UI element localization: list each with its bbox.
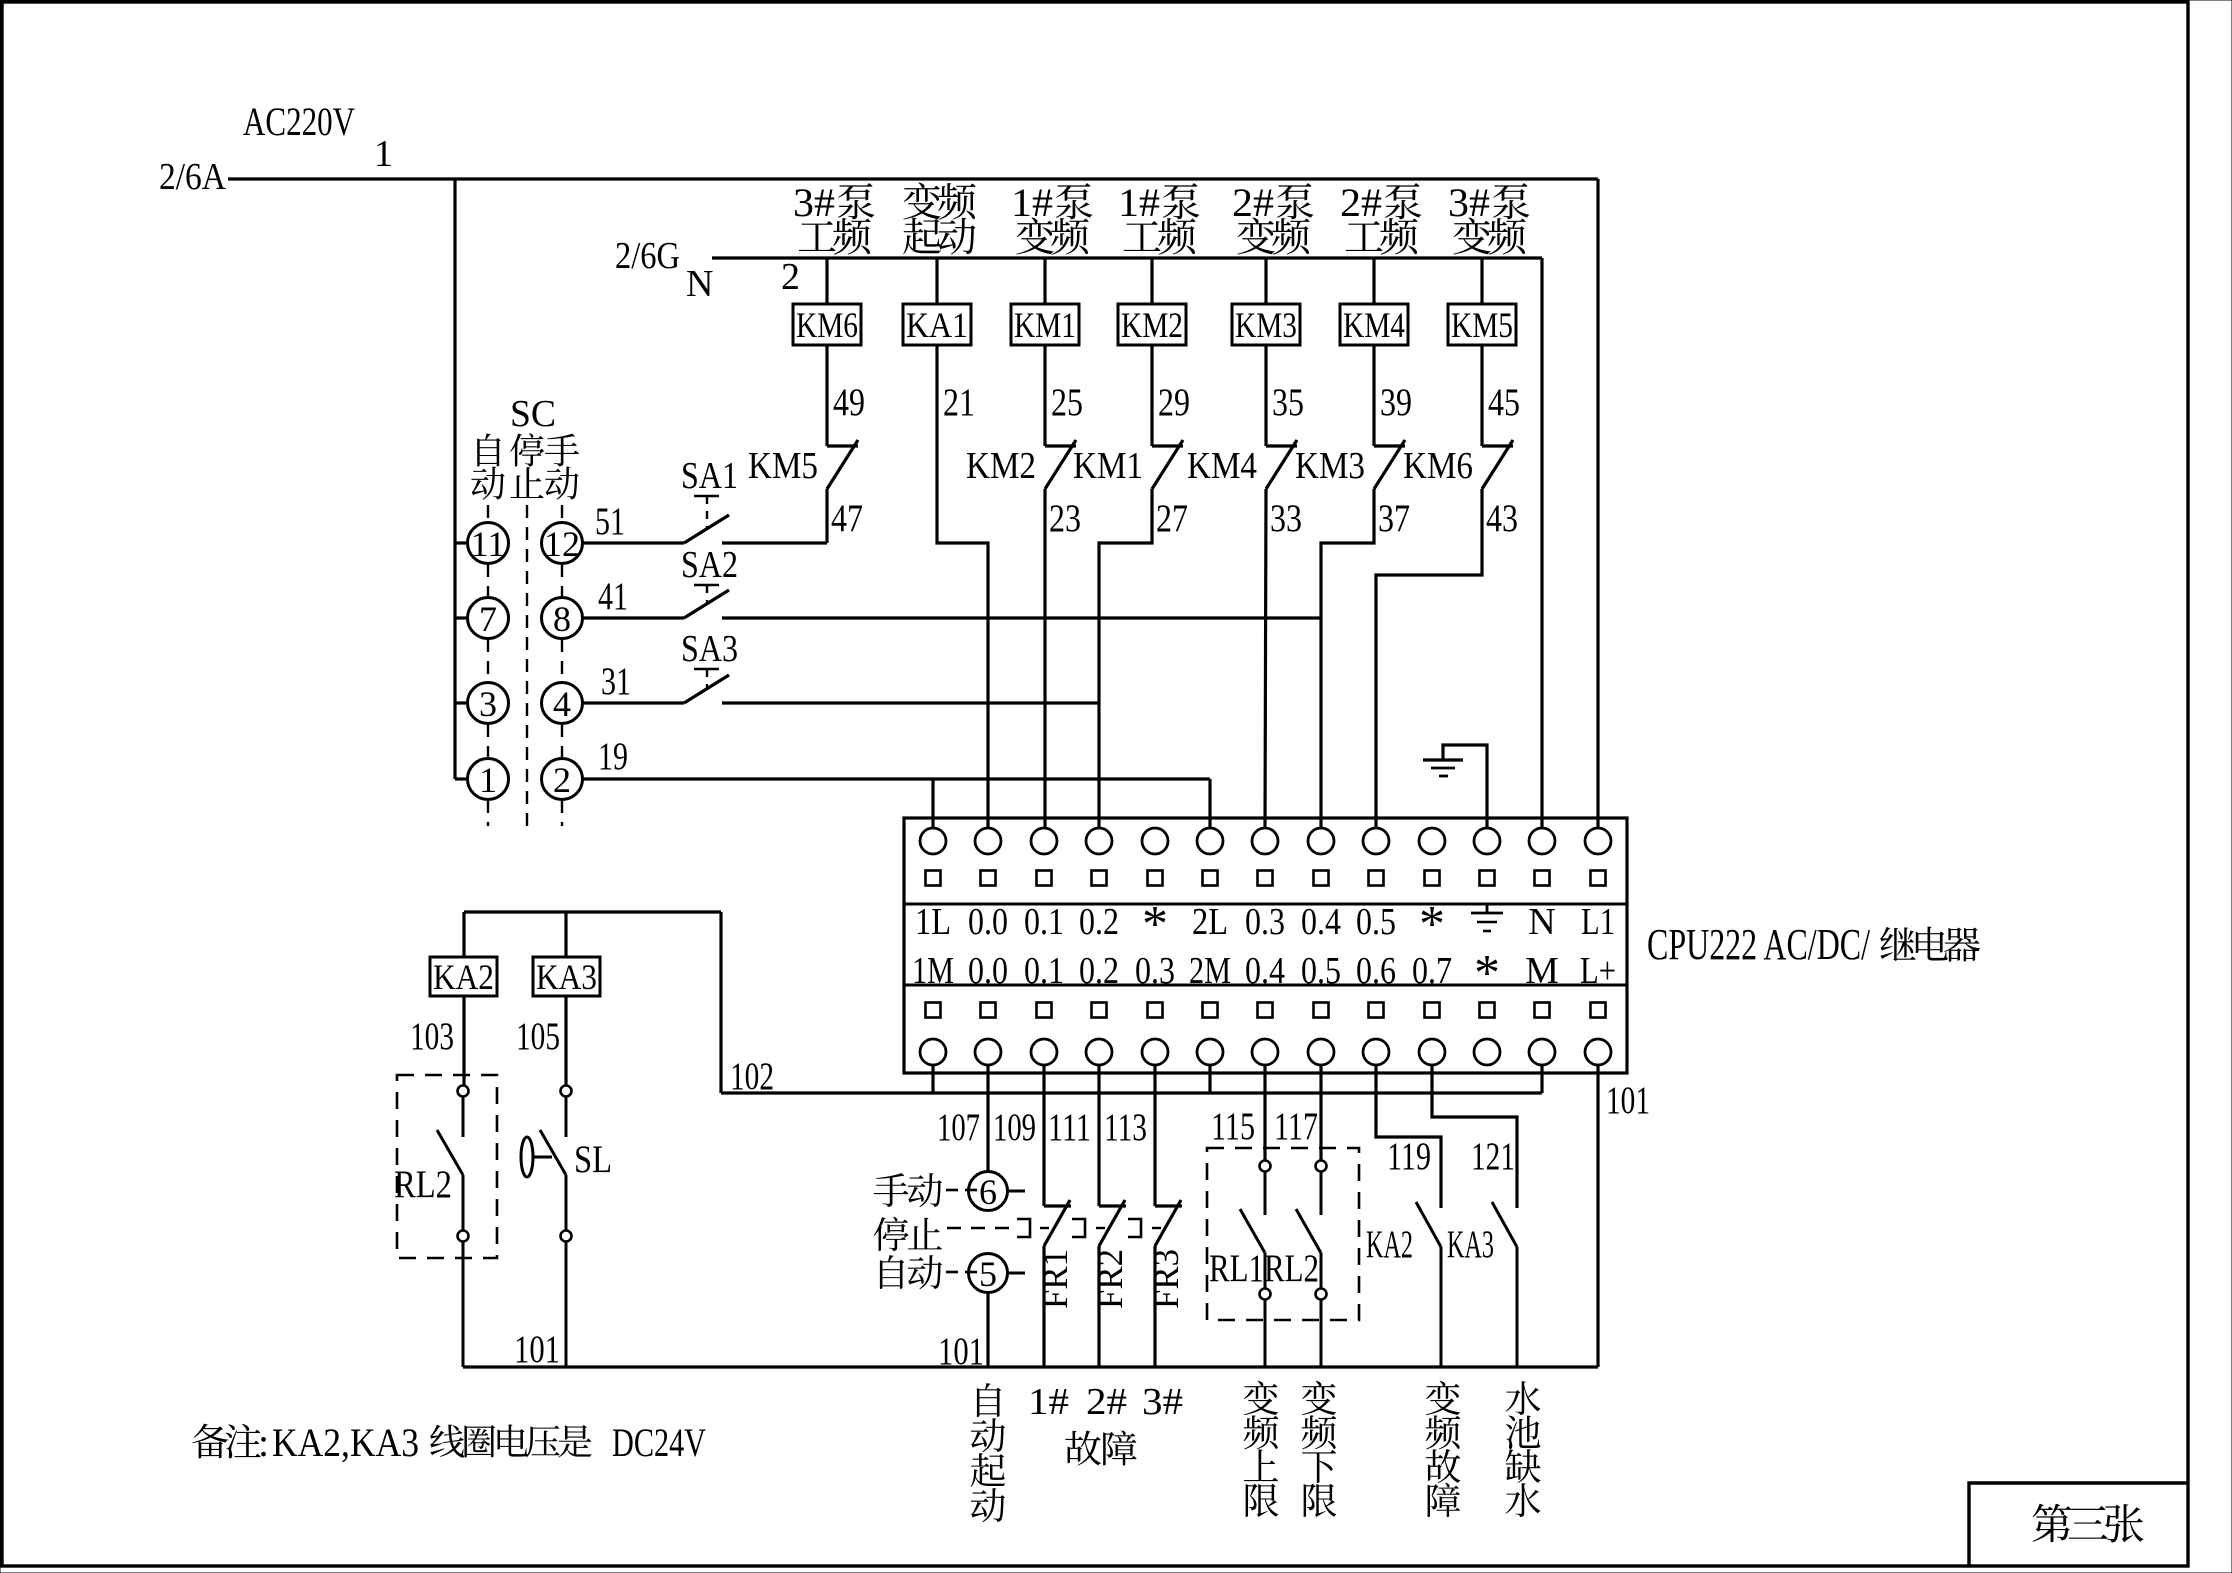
svg-text:SA1: SA1 — [681, 455, 738, 497]
wire 19 from SC to 1L and 2L — [583, 779, 1210, 829]
svg-text:39: 39 — [1380, 381, 1412, 424]
svg-text:KM6: KM6 — [1403, 445, 1473, 487]
coil KM5 — [1448, 258, 1516, 345]
wire L line 1 — [228, 177, 1598, 180]
label 101 right — [1606, 1079, 1650, 1122]
coil KA3 — [533, 912, 600, 1085]
label 自动起动 — [971, 1383, 1006, 1522]
svg-text:109: 109 — [993, 1106, 1036, 1149]
svg-text:KM6: KM6 — [796, 305, 858, 345]
svg-text:0.3: 0.3 — [1135, 950, 1175, 992]
label 31 — [601, 660, 631, 703]
SC column text 停止 — [510, 433, 544, 498]
svg-text:*: * — [1474, 945, 1500, 1002]
label 105 — [516, 1015, 560, 1058]
contact KM3 NC interlock — [1295, 345, 1412, 540]
svg-text:0.1: 0.1 — [1024, 950, 1064, 992]
svg-text:SA3: SA3 — [681, 628, 738, 670]
coil KA1 — [903, 258, 971, 345]
header 1#泵变频 over x=1045 — [1011, 180, 1092, 255]
svg-text:N: N — [686, 263, 713, 305]
svg-text:43: 43 — [1486, 497, 1518, 540]
svg-text:CPU222 AC/DC/: CPU222 AC/DC/ — [1647, 920, 1871, 969]
svg-text:0.1: 0.1 — [1024, 901, 1064, 943]
label 103 — [410, 1015, 454, 1058]
coil KM4 — [1340, 258, 1408, 345]
label 111 — [1048, 1106, 1091, 1149]
contact FR1 NC thermal — [1017, 1066, 1075, 1367]
svg-text:111: 111 — [1048, 1106, 1091, 1149]
contact KM2 NC interlock — [966, 345, 1083, 540]
svg-text:1#: 1# — [1028, 1381, 1069, 1423]
svg-text:107: 107 — [937, 1106, 980, 1149]
wire KM6 contact to output 0.5 — [1376, 489, 1482, 829]
label RL2 — [394, 1163, 452, 1206]
label 变频下限 — [1302, 1381, 1337, 1517]
PLC CPU222 terminal block — [904, 818, 1627, 1073]
svg-text:119: 119 — [1387, 1135, 1431, 1178]
svg-text:2: 2 — [781, 256, 800, 298]
svg-text:KA3: KA3 — [536, 957, 597, 997]
svg-text:27: 27 — [1156, 497, 1188, 540]
svg-text:0.4: 0.4 — [1301, 901, 1341, 943]
label 101 mid — [938, 1330, 984, 1373]
label CPU222 AC/DC/ 继电器 — [1647, 920, 1980, 969]
svg-text:25: 25 — [1051, 381, 1083, 424]
svg-text:FR1: FR1 — [1035, 1249, 1075, 1309]
contact RL2 NO — [437, 1086, 469, 1368]
svg-text:0.0: 0.0 — [968, 901, 1008, 943]
svg-text:33: 33 — [1270, 497, 1302, 540]
svg-text:115: 115 — [1211, 1105, 1255, 1148]
dashed enclosure RL2 — [397, 1075, 497, 1258]
switch SA3 — [583, 628, 1099, 703]
SC contact terminals 7-8 — [455, 598, 583, 640]
switch SA1 — [583, 455, 827, 543]
svg-text:45: 45 — [1488, 381, 1520, 424]
svg-text:RL2: RL2 — [394, 1163, 452, 1206]
header 1#泵工频 over x=1152 — [1118, 180, 1199, 255]
SC column text 手动 — [545, 434, 579, 500]
svg-text:KM4: KM4 — [1343, 305, 1405, 345]
svg-text:2#: 2# — [1086, 1381, 1127, 1423]
svg-text:2/6G: 2/6G — [615, 235, 680, 277]
svg-text:19: 19 — [598, 735, 628, 778]
svg-text:49: 49 — [833, 381, 865, 424]
wire KM1 contact to output 0.2 — [1099, 489, 1152, 829]
svg-text:101: 101 — [1606, 1079, 1650, 1122]
header 变频起动 over x=937 — [903, 182, 975, 254]
contact KA2 NO — [1376, 1066, 1441, 1367]
svg-text:RL1RL2: RL1RL2 — [1209, 1247, 1319, 1290]
SC contact terminals 3-4 — [455, 683, 583, 725]
label 115 — [1211, 1105, 1255, 1148]
svg-text:SL: SL — [574, 1138, 612, 1181]
svg-text:KM3: KM3 — [1235, 305, 1297, 345]
label 113 — [1104, 1106, 1147, 1149]
SC contact terminals 11-12 — [455, 523, 583, 565]
dashed enclosure RL1 RL2 — [1207, 1148, 1359, 1320]
wire KA1 coil to output 0.0 — [937, 345, 988, 829]
SC terminal 5 自动 — [880, 1254, 1025, 1295]
svg-text:51: 51 — [595, 500, 625, 543]
SC contact terminals 1-2 — [455, 759, 583, 801]
label SL — [574, 1138, 612, 1181]
svg-text:113: 113 — [1104, 1106, 1147, 1149]
svg-text:KM2: KM2 — [1121, 305, 1183, 345]
wire rail 101 — [463, 1066, 1598, 1367]
svg-text:KM1: KM1 — [1014, 305, 1076, 345]
wire line2 to N terminal — [1540, 258, 1543, 829]
label AC220V — [243, 99, 355, 144]
label 停止 and linkage — [874, 1217, 1163, 1251]
label 41 — [598, 575, 628, 618]
svg-text:KM3: KM3 — [1295, 445, 1365, 487]
contact KM4 NC interlock — [1187, 345, 1304, 540]
svg-text:3: 3 — [479, 684, 497, 724]
label RL1RL2 — [1209, 1247, 1319, 1290]
wire N line 2 — [712, 256, 1542, 259]
svg-text:11: 11 — [471, 524, 506, 564]
svg-text:N: N — [1528, 901, 1555, 943]
svg-text:2L: 2L — [1192, 901, 1228, 943]
coil KM1 — [1011, 258, 1079, 345]
svg-text:102: 102 — [730, 1055, 774, 1098]
switch SL float — [521, 1086, 572, 1368]
label 2/6A — [159, 156, 226, 198]
svg-text:0.6: 0.6 — [1356, 950, 1396, 992]
svg-text:KA2: KA2 — [433, 957, 494, 997]
header 2#泵工频 over x=1374 — [1340, 180, 1421, 255]
svg-text:1: 1 — [374, 133, 393, 175]
ground symbol — [1423, 745, 1487, 829]
svg-text:0.5: 0.5 — [1301, 950, 1341, 992]
coil KM6 — [793, 258, 861, 345]
svg-text::: : — [258, 1420, 269, 1465]
svg-text:*: * — [1419, 896, 1445, 953]
label 1# — [1028, 1381, 1069, 1423]
svg-text:47: 47 — [831, 497, 863, 540]
coil KM2 — [1118, 258, 1186, 345]
svg-text:0.0: 0.0 — [968, 950, 1008, 992]
svg-text:2M: 2M — [1189, 950, 1231, 992]
svg-text:KM4: KM4 — [1187, 445, 1257, 487]
wire rail 102 — [721, 912, 1542, 1093]
wire KM4 contact to output 0.3 — [1265, 489, 1266, 829]
svg-text:KA2,KA3: KA2,KA3 — [272, 1420, 419, 1465]
label KA3 contact — [1447, 1223, 1494, 1266]
svg-text:0.7: 0.7 — [1412, 950, 1452, 992]
label 109 — [993, 1106, 1036, 1149]
header 2#泵变频 over x=1266 — [1232, 180, 1313, 255]
svg-text:23: 23 — [1049, 497, 1081, 540]
svg-text:0.5: 0.5 — [1356, 901, 1396, 943]
svg-text:0.2: 0.2 — [1079, 901, 1119, 943]
label 水池缺水 — [1506, 1381, 1541, 1517]
svg-text:KA1: KA1 — [906, 305, 968, 345]
svg-text:0.2: 0.2 — [1079, 950, 1119, 992]
wire KM3 contact to output 0.4 — [1321, 489, 1374, 829]
label 故障 — [1065, 1430, 1136, 1465]
svg-text:FR3: FR3 — [1146, 1249, 1186, 1309]
contact FR3 NC thermal — [1128, 1066, 1186, 1367]
svg-text:0.4: 0.4 — [1245, 950, 1285, 992]
SC column text 自动 — [471, 434, 504, 500]
svg-text:105: 105 — [516, 1015, 560, 1058]
svg-text:*: * — [1142, 896, 1168, 953]
svg-text:3#: 3# — [1142, 1381, 1183, 1423]
label 2 — [781, 256, 800, 298]
label 51 — [595, 500, 625, 543]
svg-text:7: 7 — [479, 599, 497, 639]
svg-text:KM1: KM1 — [1073, 445, 1143, 487]
label 2# — [1086, 1381, 1127, 1423]
wire line1 to L1 terminal — [1596, 179, 1599, 829]
wire node 5 to rail 101 — [986, 1292, 989, 1367]
label 121 — [1471, 1135, 1515, 1178]
label 101 left — [514, 1328, 560, 1371]
svg-text:0.3: 0.3 — [1245, 901, 1285, 943]
svg-text:FR2: FR2 — [1090, 1249, 1130, 1309]
coil KM3 — [1232, 258, 1300, 345]
svg-text:117: 117 — [1274, 1105, 1318, 1148]
svg-text:KM5: KM5 — [1451, 305, 1513, 345]
svg-text:8: 8 — [553, 599, 571, 639]
svg-text:41: 41 — [598, 575, 628, 618]
contact KM6 NC interlock — [1403, 345, 1520, 540]
wire input 0.0 to node 6 — [986, 1066, 989, 1172]
contact KM1 NC interlock — [1073, 345, 1190, 540]
label 119 — [1387, 1135, 1431, 1178]
svg-text:DC24V: DC24V — [612, 1420, 706, 1465]
svg-text:SC: SC — [510, 393, 556, 435]
svg-text:37: 37 — [1378, 497, 1410, 540]
svg-text:6: 6 — [979, 1172, 997, 1212]
contact KA3 NO — [1432, 1066, 1517, 1367]
svg-text:KM5: KM5 — [748, 445, 818, 487]
wire KM2 contact to output 0.1 — [1043, 489, 1046, 829]
svg-text:5: 5 — [979, 1254, 997, 1294]
label 107 — [937, 1106, 980, 1149]
SC terminal 6 手动 — [874, 1172, 1025, 1213]
svg-text:1#: 1# — [1118, 180, 1160, 225]
svg-text:101: 101 — [938, 1330, 984, 1373]
svg-text:2/6A: 2/6A — [159, 156, 226, 198]
note 备注 — [192, 1420, 706, 1465]
svg-text:12: 12 — [544, 524, 580, 564]
svg-text:KA2: KA2 — [1366, 1223, 1413, 1266]
label N — [686, 263, 713, 305]
svg-text:AC220V: AC220V — [243, 99, 355, 144]
svg-text:KA3: KA3 — [1447, 1223, 1494, 1266]
svg-text:1L: 1L — [915, 901, 951, 943]
svg-text:KM2: KM2 — [966, 445, 1036, 487]
wire line1 down to SC — [453, 179, 456, 779]
label 1 — [374, 133, 393, 175]
header 3#泵变频 over x=1482 — [1448, 180, 1529, 255]
title block 第三张 — [1969, 1483, 2188, 1566]
label 117 — [1274, 1105, 1318, 1148]
coil KA2 — [430, 912, 497, 1085]
label SC — [510, 393, 556, 435]
svg-text:121: 121 — [1471, 1135, 1515, 1178]
svg-text:31: 31 — [601, 660, 631, 703]
svg-text:21: 21 — [943, 381, 975, 424]
label 102 — [730, 1055, 774, 1098]
label 变频故障 — [1426, 1381, 1461, 1517]
svg-text:103: 103 — [410, 1015, 454, 1058]
label KA2 contact — [1366, 1223, 1413, 1266]
label 3# — [1142, 1381, 1183, 1423]
svg-text:L1: L1 — [1581, 901, 1615, 943]
svg-text:1M: 1M — [912, 950, 954, 992]
contact RL2 lower limit NO — [1296, 1066, 1327, 1367]
svg-text:29: 29 — [1158, 381, 1190, 424]
label 变频上限 — [1244, 1381, 1279, 1517]
label 21 — [943, 381, 975, 424]
svg-text:35: 35 — [1272, 381, 1304, 424]
svg-text:M: M — [1525, 950, 1559, 992]
label 19 — [598, 735, 628, 778]
svg-text:2#: 2# — [1340, 180, 1382, 225]
svg-text:3#: 3# — [793, 180, 835, 225]
switch SA2 — [583, 544, 1321, 618]
label 2/6G — [615, 235, 680, 277]
contact RL1 upper limit NO — [1240, 1066, 1271, 1367]
svg-text:2: 2 — [553, 760, 571, 800]
svg-text:101: 101 — [514, 1328, 560, 1371]
svg-text:L+: L+ — [1580, 950, 1616, 992]
wire KA2 KA3 supply — [464, 910, 721, 913]
header 3#泵工频 over x=827 — [793, 180, 874, 255]
wire KM5 contact to node 47 — [825, 489, 828, 543]
contact KM5 NC interlock — [748, 345, 865, 540]
SC linkage dashed lines — [488, 505, 562, 826]
contact FR2 NC thermal — [1072, 1066, 1130, 1367]
svg-text:SA2: SA2 — [681, 544, 738, 586]
svg-text:1: 1 — [479, 760, 497, 800]
svg-text:4: 4 — [553, 684, 571, 724]
